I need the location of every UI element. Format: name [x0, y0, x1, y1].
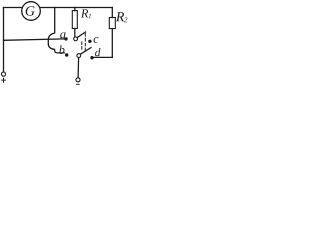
node a dot: [64, 37, 67, 40]
wire pivot2 down to battery minus terminal: [77, 58, 80, 78]
wire from d to R2 bottom: [93, 56, 112, 58]
wire from left rail to contact a: [4, 39, 65, 40]
minus sign: [76, 83, 80, 85]
resistor R2 bottom stub: [111, 29, 113, 58]
label R2: [116, 12, 127, 22]
resistor R1 bottom stub: [74, 29, 76, 38]
node d dot: [90, 56, 93, 59]
label a: [60, 32, 65, 38]
switch pivot contact 1: [74, 37, 78, 41]
label b: [59, 45, 64, 53]
plus sign: [1, 78, 6, 83]
wire left rail: [3, 8, 5, 72]
linkage dashed line 1: [84, 33, 86, 51]
galvanometer G: [22, 2, 41, 21]
label d: [95, 48, 100, 56]
switch blade 2: [81, 48, 91, 55]
wire from top T-junction down with crossover hop to b: [48, 8, 64, 53]
node b dot: [65, 53, 68, 56]
battery minus terminal circle: [76, 78, 80, 82]
battery plus terminal circle: [1, 72, 5, 76]
wire top segment right of G: [40, 7, 112, 9]
node c dot: [88, 40, 91, 43]
switch blade 1: [77, 32, 85, 38]
resistor R2 top stub: [111, 8, 113, 18]
resistor R2 body: [109, 18, 115, 29]
switch pivot contact 2: [77, 54, 81, 58]
label c: [94, 37, 99, 43]
wire top-left segment: [4, 7, 23, 9]
resistor R1 body: [72, 11, 77, 29]
label R1: [81, 9, 91, 18]
resistor R1 top stub: [74, 8, 76, 11]
label G: [26, 6, 35, 15]
linkage dashed line 2: [81, 42, 83, 51]
